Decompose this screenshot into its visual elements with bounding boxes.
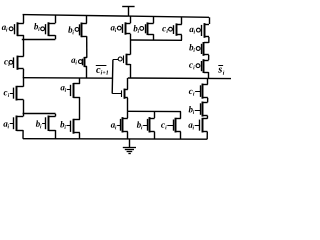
wire (181, 17, 183, 24)
wire (23, 39, 25, 56)
transistor N7 c_i (sum a||b||c) (161, 118, 181, 133)
wire (127, 78, 129, 90)
wire (23, 100, 25, 114)
wire (127, 98, 129, 111)
transistor P12 c_i (sum abc series) (189, 59, 209, 73)
transistor N3 b_i (carry a||b) (36, 116, 56, 132)
transistor P8 b_i (sum a||b||c) (133, 22, 153, 35)
wire (86, 66, 88, 78)
transistor P9 c_i (sum a||b||c) (162, 23, 182, 35)
wire ground rail (23, 138, 207, 141)
wire (79, 133, 81, 139)
wire (206, 116, 208, 119)
node carry ab (nmos) (23, 113, 56, 115)
wire (23, 114, 25, 117)
wire (55, 114, 57, 117)
wire (130, 34, 132, 40)
wire (181, 35, 183, 40)
wire (86, 36, 88, 58)
transistor P10 a_i (sum abc series) (189, 23, 209, 38)
transistor N4 middle (gate Cbar_i+1) (112, 89, 128, 99)
ground (123, 139, 136, 154)
wire Cbar gate vertical (111, 60, 114, 94)
wire (127, 132, 129, 139)
transistor P7 a_i (sum a||b||c) (111, 22, 131, 34)
wire (180, 112, 182, 119)
wire (79, 78, 81, 84)
node sum abc (nmos) (127, 110, 181, 112)
node Cbar_i+1 wire (23, 77, 113, 80)
transistor N5 a_i (sum a||b||c) (111, 117, 128, 132)
transistor P3 c_i (carry series c) (4, 56, 23, 70)
wire (207, 98, 209, 103)
wire (153, 17, 155, 24)
wire (55, 35, 57, 39)
wire (153, 34, 155, 40)
wire (208, 72, 210, 78)
wire (208, 37, 210, 43)
wire (22, 69, 24, 78)
wire (23, 78, 25, 87)
wire (154, 132, 156, 139)
wire (127, 111, 129, 118)
wire (130, 40, 132, 55)
node sum abc (pmos) (130, 39, 182, 41)
transistor P4 b_i (carry a.b) (68, 23, 87, 38)
transistor N10 a_i (sum abc series) (188, 118, 207, 133)
transistor N11 a_i (carry a.b) (61, 83, 80, 98)
transistor P5 a_i (carry a.b) (71, 57, 87, 67)
wire (206, 132, 208, 140)
wire (86, 16, 88, 24)
transistor N9 b_i (sum abc series) (189, 102, 208, 117)
power VDD symbol (122, 7, 134, 17)
wire VDD rail (23, 15, 209, 18)
node label Cbar_i+1 (96, 66, 108, 75)
wire (130, 64, 132, 78)
node label Sbar_i (218, 66, 224, 75)
wire (180, 132, 182, 140)
wire (23, 15, 25, 24)
transistor N8 c_i (sum abc series) (189, 84, 208, 99)
wire (55, 15, 57, 23)
wire (208, 55, 210, 60)
wire (23, 35, 25, 39)
wire (22, 130, 24, 139)
wire (209, 17, 211, 24)
wire (154, 111, 156, 118)
transistor P11 b_i (sum abc series) (189, 42, 209, 56)
node carry ab (pmos) (22, 39, 56, 41)
wire (79, 97, 81, 120)
node Sbar wire (128, 77, 231, 80)
transistor P2 b_i (carry a||b) (34, 22, 55, 36)
wire (207, 79, 209, 85)
transistor N6 b_i (sum a||b||c) (137, 117, 155, 132)
transistor N12 b_i (carry a.b) (60, 119, 80, 134)
transistor P1 a_i (carry a||b) (2, 22, 24, 36)
wire (55, 130, 57, 139)
transistor N2 a_i (carry a||b) (3, 116, 23, 132)
transistor P6 middle (gate Cbar_i+1) (113, 54, 130, 65)
wire (130, 16, 132, 23)
transistor N1 c_i (carry series c) (4, 86, 24, 101)
